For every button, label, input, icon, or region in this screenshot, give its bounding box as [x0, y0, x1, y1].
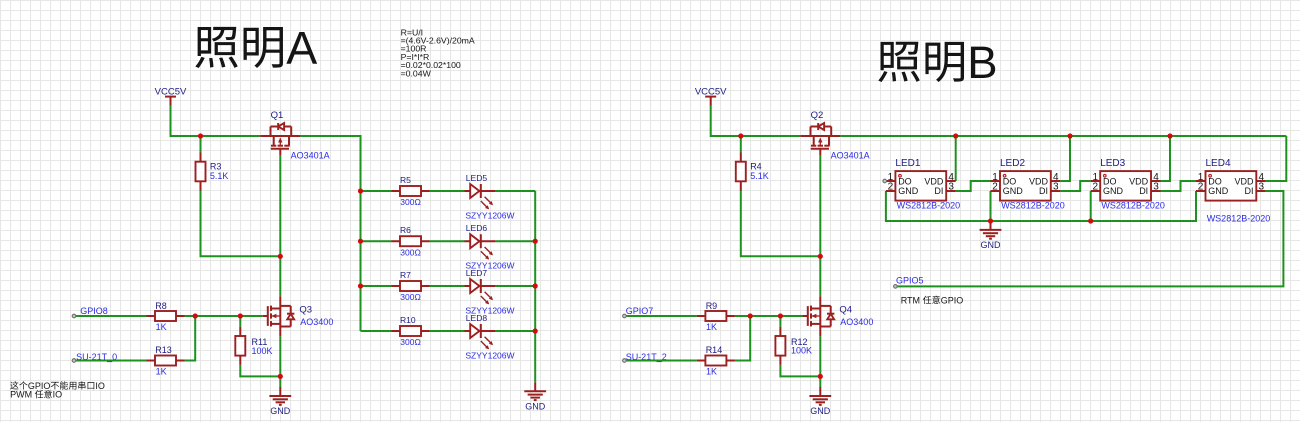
svg-text:5.1K: 5.1K [750, 171, 769, 181]
svg-text:A: A [286, 22, 317, 74]
svg-text:DI: DI [1039, 186, 1048, 196]
svg-text:2: 2 [888, 182, 894, 193]
svg-text:VDD: VDD [924, 176, 944, 186]
svg-text:LED7: LED7 [466, 268, 488, 278]
svg-text:DO: DO [898, 176, 912, 186]
svg-text:1K: 1K [706, 322, 717, 332]
svg-text:WS2812B-2020: WS2812B-2020 [1207, 214, 1271, 224]
svg-text:AO3400: AO3400 [840, 317, 873, 327]
svg-text:2: 2 [1092, 182, 1098, 193]
svg-text:LED4: LED4 [1206, 158, 1231, 169]
svg-text:LED8: LED8 [466, 313, 488, 323]
svg-text:WS2812B-2020: WS2812B-2020 [1001, 201, 1065, 211]
svg-text:GND: GND [525, 401, 546, 411]
svg-text:LED6: LED6 [466, 223, 488, 233]
svg-text:Q3: Q3 [299, 304, 312, 315]
svg-text:WS2812B-2020: WS2812B-2020 [1101, 201, 1165, 211]
svg-text:DI: DI [1139, 186, 1148, 196]
svg-text:DO: DO [1003, 176, 1017, 186]
svg-text:GND: GND [1103, 186, 1124, 196]
svg-text:GND: GND [1003, 186, 1024, 196]
svg-text:VDD: VDD [1234, 176, 1254, 186]
svg-text:AO3400: AO3400 [300, 317, 333, 327]
svg-text:1K: 1K [706, 367, 717, 377]
svg-text:R13: R13 [155, 345, 172, 355]
svg-text:DO: DO [1103, 176, 1117, 186]
svg-text:100K: 100K [252, 346, 273, 356]
svg-text:VDD: VDD [1029, 176, 1049, 186]
svg-text:PWM: PWM [10, 390, 32, 400]
svg-text:1K: 1K [156, 367, 167, 377]
svg-text:IO: IO [53, 390, 63, 400]
svg-text:GND: GND [810, 406, 831, 416]
svg-text:DO: DO [1208, 176, 1222, 186]
svg-text:GPIO8: GPIO8 [80, 306, 108, 316]
svg-text:SZYY1206W: SZYY1206W [465, 351, 514, 361]
svg-text:5.1K: 5.1K [210, 171, 229, 181]
svg-text:R4: R4 [750, 161, 762, 171]
svg-text:GPIO7: GPIO7 [626, 306, 654, 316]
svg-text:GPIO5: GPIO5 [896, 276, 924, 286]
svg-text:LED5: LED5 [466, 173, 488, 183]
svg-text:R6: R6 [400, 225, 411, 235]
svg-text:B: B [967, 37, 997, 88]
svg-text:RTM: RTM [901, 295, 920, 305]
svg-text:VCC5V: VCC5V [155, 87, 187, 98]
svg-text:GND: GND [898, 186, 919, 196]
svg-text:WS2812B-2020: WS2812B-2020 [897, 201, 961, 211]
svg-text:Q4: Q4 [839, 304, 852, 315]
svg-text:R8: R8 [155, 301, 167, 311]
svg-text:Q2: Q2 [811, 110, 824, 121]
svg-text:SU-21T_2: SU-21T_2 [626, 352, 667, 362]
svg-text:VDD: VDD [1129, 176, 1149, 186]
svg-text:AO3401A: AO3401A [831, 150, 870, 160]
svg-text:=0.04W: =0.04W [401, 68, 432, 78]
svg-text:R10: R10 [400, 315, 416, 325]
svg-text:DI: DI [934, 186, 943, 196]
svg-text:GPIO: GPIO [941, 295, 964, 305]
svg-text:3: 3 [1053, 182, 1059, 193]
svg-text:3: 3 [1153, 182, 1159, 193]
svg-text:SZYY1206W: SZYY1206W [465, 211, 514, 221]
svg-text:300Ω: 300Ω [400, 292, 421, 302]
svg-text:R3: R3 [210, 161, 222, 171]
svg-text:LED2: LED2 [1000, 158, 1025, 169]
svg-text:LED1: LED1 [895, 158, 920, 169]
svg-text:SU-21T_0: SU-21T_0 [76, 352, 117, 362]
svg-text:R9: R9 [706, 301, 718, 311]
svg-text:VCC5V: VCC5V [695, 87, 727, 98]
svg-text:3: 3 [948, 182, 954, 193]
svg-text:R5: R5 [400, 175, 411, 185]
svg-text:IO: IO [95, 381, 105, 391]
svg-text:100K: 100K [791, 346, 812, 356]
svg-text:GND: GND [270, 406, 291, 416]
svg-text:300Ω: 300Ω [400, 197, 421, 207]
svg-text:GND: GND [981, 240, 1002, 250]
svg-text:Q1: Q1 [271, 110, 284, 121]
svg-text:DI: DI [1245, 186, 1254, 196]
svg-text:2: 2 [992, 182, 998, 193]
svg-text:R7: R7 [400, 270, 411, 280]
svg-text:3: 3 [1259, 182, 1265, 193]
svg-text:300Ω: 300Ω [400, 247, 421, 257]
svg-text:R14: R14 [706, 345, 723, 355]
svg-text:LED3: LED3 [1100, 158, 1125, 169]
svg-text:300Ω: 300Ω [400, 337, 421, 347]
svg-text:GND: GND [1208, 186, 1229, 196]
svg-text:1K: 1K [156, 322, 167, 332]
svg-text:2: 2 [1198, 182, 1204, 193]
svg-text:AO3401A: AO3401A [291, 150, 330, 160]
